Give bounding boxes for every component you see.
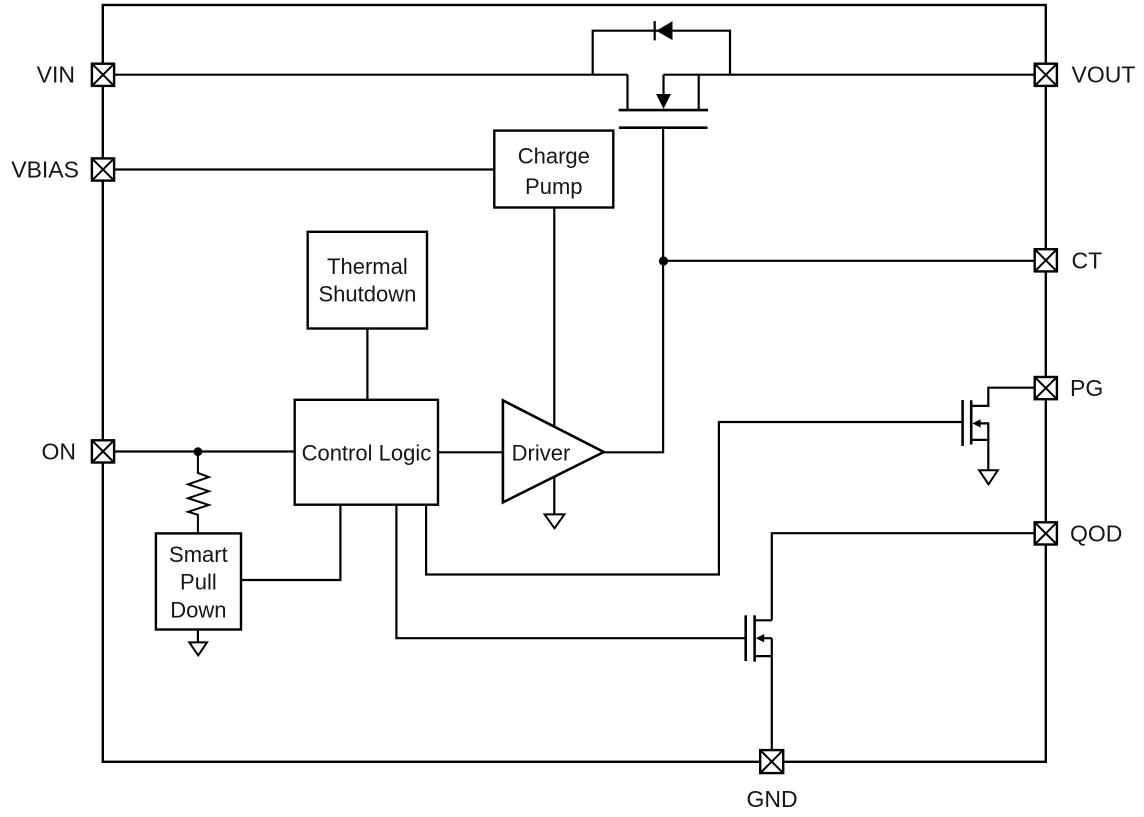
pin GND — [760, 750, 783, 773]
pin CT — [1035, 249, 1057, 271]
svg-text:ON: ON — [42, 438, 77, 464]
svg-text:Pump: Pump — [525, 174, 582, 199]
svg-text:GND: GND — [746, 786, 797, 812]
ground under PG FET — [979, 470, 998, 484]
svg-text:QOD: QOD — [1070, 521, 1122, 547]
pin ON — [92, 440, 114, 462]
block Control Logic — [295, 400, 438, 505]
wire smart pull down to control logic — [241, 505, 340, 580]
body diode D1 — [593, 21, 730, 75]
svg-text:Shutdown: Shutdown — [318, 282, 416, 307]
junction dot CT node — [659, 256, 668, 265]
svg-text:Driver: Driver — [512, 441, 571, 466]
wire VOUT — [664, 74, 1034, 76]
QOD FET Q3 — [746, 615, 772, 661]
svg-text:PG: PG — [1070, 375, 1103, 401]
PG FET Q2 — [963, 388, 1034, 471]
wire ON — [115, 450, 295, 452]
ground under smart pull down — [189, 642, 207, 655]
svg-text:Down: Down — [170, 598, 226, 623]
wire QOD — [772, 533, 1034, 620]
svg-text:Control Logic: Control Logic — [302, 441, 432, 466]
driver U1 — [503, 400, 604, 502]
svg-text:Thermal: Thermal — [327, 254, 408, 279]
wire CT — [664, 260, 1035, 262]
wire control logic to driver — [438, 451, 503, 453]
ground under driver — [545, 514, 565, 528]
junction dot ON / resistor — [194, 447, 203, 456]
wire control logic to QOD FET gate — [396, 505, 744, 639]
block Smart Pull Down — [156, 533, 241, 629]
pin PG — [1035, 377, 1057, 399]
resistor R1 — [188, 452, 209, 534]
svg-text:Pull: Pull — [180, 570, 217, 595]
pin QOD — [1035, 522, 1057, 544]
svg-text:VBIAS: VBIAS — [11, 157, 79, 183]
svg-text:Smart: Smart — [169, 542, 228, 567]
pin VIN — [92, 64, 114, 86]
pin VOUT — [1035, 64, 1057, 86]
block Charge Pump — [494, 131, 613, 208]
wire VBIAS — [115, 168, 494, 170]
svg-text:CT: CT — [1072, 248, 1103, 274]
wire QOD FET source to GND — [771, 638, 773, 750]
svg-text:VIN: VIN — [37, 62, 75, 88]
wire charge pump to ground behind driver — [553, 208, 555, 515]
pin VBIAS — [92, 158, 114, 180]
svg-text:Charge: Charge — [518, 144, 590, 169]
IC boundary — [103, 5, 1046, 762]
wire control logic to PG FET gate — [426, 422, 961, 575]
wire VIN — [115, 74, 628, 76]
block Thermal Shutdown — [308, 232, 427, 329]
wire smart pull down to ground — [197, 630, 199, 643]
pass FET Q1 — [619, 75, 708, 128]
wire driver output to gate of Q1 — [604, 128, 663, 453]
svg-text:VOUT: VOUT — [1072, 62, 1136, 88]
wire thermal shutdown to control logic — [366, 329, 368, 400]
